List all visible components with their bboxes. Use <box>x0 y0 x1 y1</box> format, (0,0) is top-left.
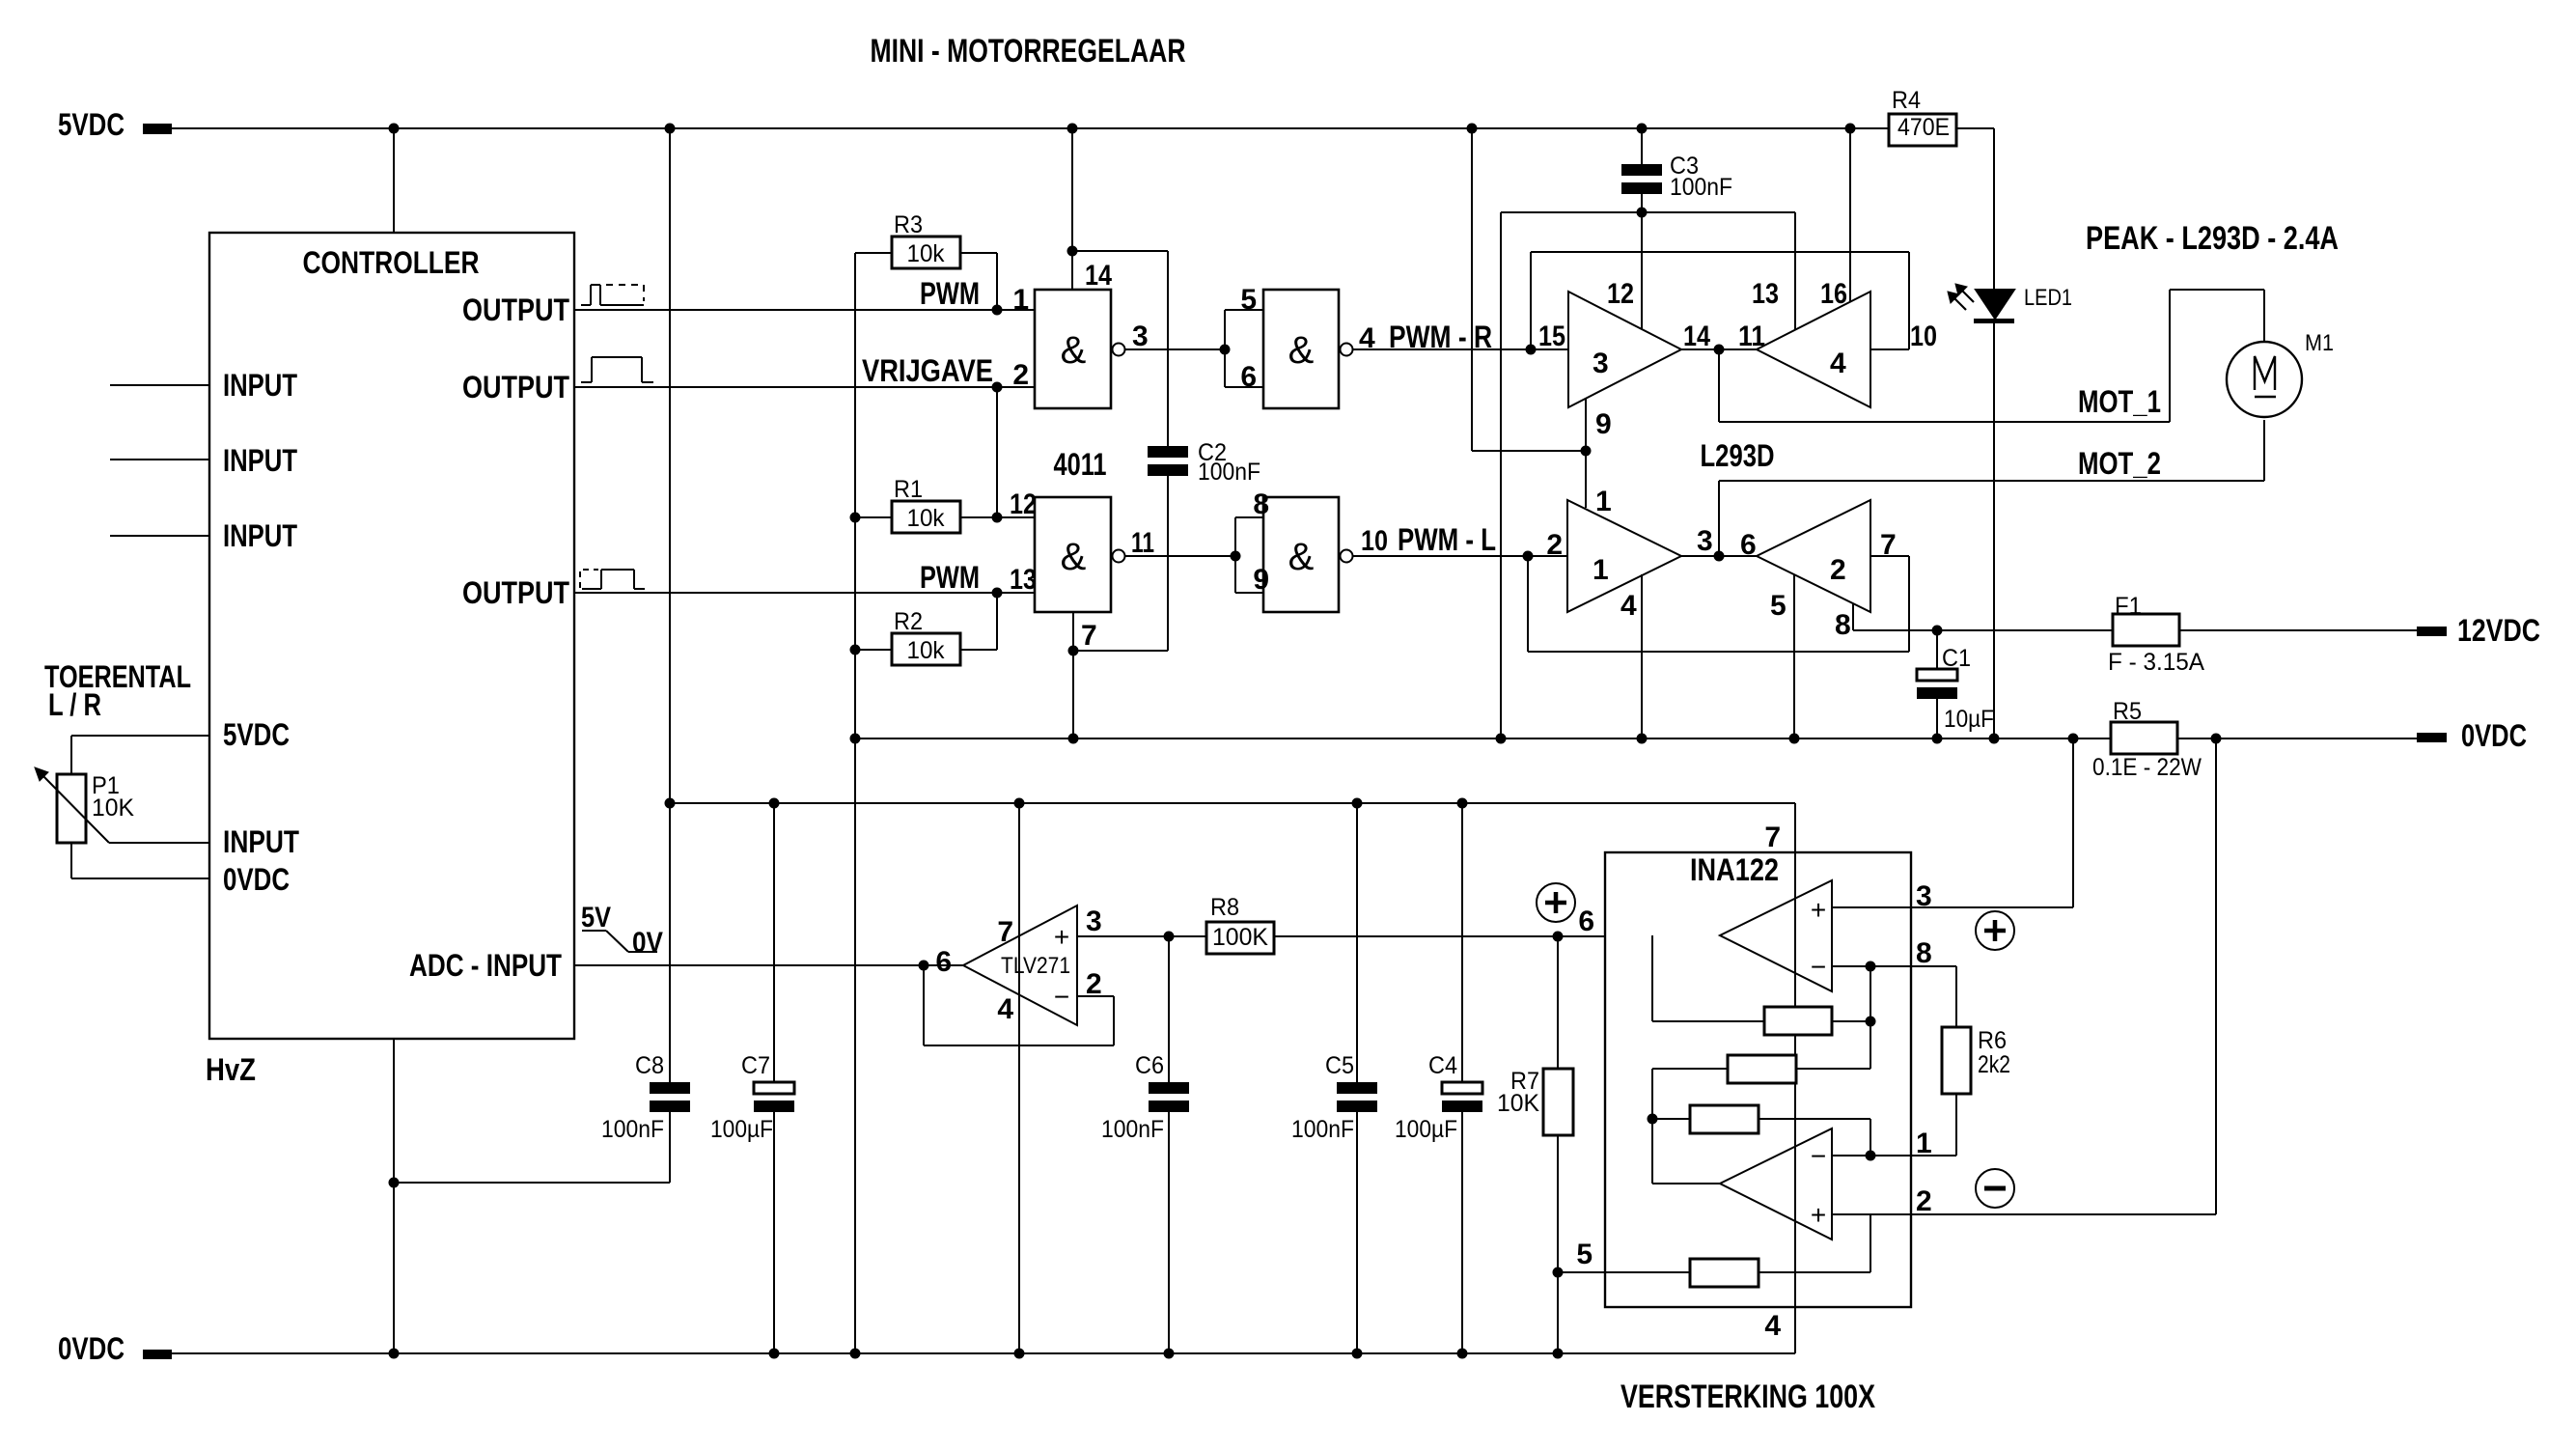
svg-text:5VDC: 5VDC <box>58 107 125 142</box>
svg-text:L / R: L / R <box>48 687 101 722</box>
junction enable pins <box>1581 446 1592 457</box>
pin label 15 <box>1538 320 1565 352</box>
junction rail832 C7 <box>769 798 780 809</box>
wire MOT1 column <box>1718 349 1720 422</box>
svg-text:ADC - INPUT: ADC - INPUT <box>409 948 562 983</box>
wire 5V analog rail <box>670 802 1795 804</box>
wire 4011 pin7 down <box>1072 612 1074 738</box>
junction 4011 pin7 <box>1068 646 1079 656</box>
svg-text:F1: F1 <box>2115 593 2142 620</box>
junction 5VDC enable column <box>1467 124 1478 134</box>
svg-text:7: 7 <box>1081 620 1097 652</box>
svg-text:R5: R5 <box>2113 698 2142 725</box>
svg-text:MOT_1: MOT_1 <box>2078 384 2161 419</box>
wire 0VDC upper rail <box>855 738 2417 739</box>
pin label 2 TLV <box>1086 968 1102 1000</box>
junction 5VDC pin14 column <box>1067 124 1078 134</box>
svg-text:M1: M1 <box>2305 330 2334 356</box>
svg-text:0VDC: 0VDC <box>58 1331 125 1366</box>
controller box <box>209 233 574 1039</box>
wire controller top supply <box>393 128 395 233</box>
controller pin OUTPUT 3 <box>462 575 1035 610</box>
waveform icon output 1 <box>581 285 644 305</box>
svg-text:R8: R8 <box>1210 894 1239 921</box>
svg-text:MINI - MOTORREGELAAR: MINI - MOTORREGELAAR <box>871 33 1186 70</box>
wire gate2 stub <box>1225 310 1263 387</box>
motor M1 <box>2227 330 2334 417</box>
ina internal resistor D <box>1558 1214 1870 1287</box>
junction rail x886 <box>850 734 861 744</box>
wire MOT2 column <box>1718 481 1720 556</box>
pin label 1 L293D <box>1595 486 1612 517</box>
junction 5VDC controller column <box>389 124 400 134</box>
capacitor C6 <box>1101 936 1189 1353</box>
svg-text:100µF: 100µF <box>710 1116 773 1143</box>
svg-text:100K: 100K <box>1212 924 1268 951</box>
pin label 11 L293D <box>1738 320 1765 352</box>
label L293D <box>1701 438 1775 473</box>
junction rail832 TLV7 <box>1014 798 1025 809</box>
wire enable feed pin1 pin9 <box>1472 399 1586 508</box>
svg-text:8: 8 <box>1916 937 1932 969</box>
wire gate1 out to gate2 <box>1125 348 1225 350</box>
svg-text:12: 12 <box>1010 488 1037 520</box>
junction bottom R7 <box>1553 1349 1564 1359</box>
wire INA pin3 <box>1832 738 2073 907</box>
junction gate4 stub <box>1231 551 1241 562</box>
controller pin INPUT 1 <box>110 368 297 403</box>
svg-text:−: − <box>1811 952 1826 982</box>
svg-text:100nF: 100nF <box>1101 1116 1164 1143</box>
svg-text:16: 16 <box>1820 278 1847 310</box>
junction bottom C5 <box>1352 1349 1363 1359</box>
wire INA pin1 <box>1832 1155 1956 1156</box>
junction bottom TLV <box>1014 1349 1025 1359</box>
svg-text:0VDC: 0VDC <box>2461 718 2527 753</box>
svg-text:470E: 470E <box>1897 114 1950 141</box>
pin label 3 L293D <box>1697 525 1713 557</box>
svg-text:INPUT: INPUT <box>223 824 299 859</box>
svg-text:R1: R1 <box>894 476 923 503</box>
junction R1 pin12 <box>992 513 1003 523</box>
pin label 4 INA <box>1764 1310 1781 1342</box>
wire R1 left <box>855 516 892 518</box>
controller pin INPUT wiper <box>109 824 299 859</box>
svg-text:&: & <box>1061 536 1087 578</box>
capacitor C3 <box>1621 128 1732 212</box>
wire R1 right <box>960 516 1035 518</box>
svg-text:100nF: 100nF <box>601 1116 664 1143</box>
pin label 4 L293D <box>1620 590 1637 622</box>
wire R2 left <box>855 649 892 651</box>
svg-text:6: 6 <box>1740 529 1757 561</box>
svg-text:5: 5 <box>1576 1239 1593 1270</box>
junction rail832 x694 <box>665 798 676 809</box>
power terminal 0VDC bottom <box>58 1331 172 1366</box>
svg-text:INPUT: INPUT <box>223 518 297 553</box>
label PEAK - L293D - 2.4A <box>2086 220 2339 257</box>
controller pin 5VDC <box>71 717 290 752</box>
junction rail x1555 <box>1496 734 1507 744</box>
svg-text:3: 3 <box>1593 348 1609 379</box>
controller pin OUTPUT 2 <box>462 370 1035 404</box>
svg-text:2: 2 <box>1546 529 1563 561</box>
junction bottom controller <box>389 1349 400 1359</box>
junction C8 bottom wire <box>389 1178 400 1188</box>
power terminal 12VDC <box>2417 613 2540 648</box>
fuse F1 <box>2108 593 2204 676</box>
junction TLV pin6 <box>919 961 929 971</box>
junction x886 R2 <box>850 645 861 655</box>
junction bottom C4 <box>1457 1349 1468 1359</box>
wire gate4 stub <box>1235 517 1263 593</box>
svg-text:6: 6 <box>935 946 952 978</box>
wire x1525 enable column <box>1471 128 1473 451</box>
ina amp A <box>1720 880 1832 991</box>
svg-text:10: 10 <box>1910 320 1937 352</box>
wire R4 to LED column <box>1957 127 1994 129</box>
op-amp TLV271 <box>963 906 1077 1025</box>
svg-text:10k: 10k <box>907 637 945 664</box>
pin label 3 INA <box>1916 880 1932 912</box>
pin label 8 <box>1253 488 1269 520</box>
wire pin15 column <box>1530 252 1532 349</box>
svg-text:INPUT: INPUT <box>223 443 297 478</box>
wire L293 feedback loop <box>1528 556 1909 652</box>
junction pin8 node <box>1866 961 1876 972</box>
wire gate3 out to gate4 <box>1125 555 1235 557</box>
junction resA right <box>1866 1017 1876 1027</box>
svg-text:4011: 4011 <box>1054 447 1107 482</box>
svg-text:100nF: 100nF <box>1291 1116 1354 1143</box>
svg-text:+: + <box>1811 895 1826 925</box>
capacitor C7 <box>710 803 794 1353</box>
svg-text:14: 14 <box>1683 320 1710 352</box>
pin label 5 <box>1240 284 1257 316</box>
wire apex to apex upper <box>1681 348 1757 350</box>
junction x886 R1 <box>850 513 861 523</box>
wire R3 right <box>960 253 997 310</box>
minus circle pin2 <box>1976 1169 2014 1208</box>
svg-text:+: + <box>1054 922 1069 952</box>
wire R6 bottom <box>1955 1094 1957 1156</box>
wire pin14 column <box>1071 128 1073 290</box>
ina amp B <box>1720 1129 1832 1240</box>
pin label 5 L293D <box>1770 590 1787 622</box>
pin label 1 <box>1012 284 1029 316</box>
wire 0VDC bottom rail <box>172 1352 1795 1354</box>
pin label 3 TLV <box>1086 906 1102 937</box>
svg-text:PWM - R: PWM - R <box>1389 320 1492 354</box>
svg-text:HvZ: HvZ <box>206 1052 256 1087</box>
junction bottom x886 <box>850 1349 861 1359</box>
pin label 12 <box>1010 488 1037 520</box>
pin label 1 INA <box>1916 1128 1932 1159</box>
resistor R3 <box>892 211 960 268</box>
junction rail pin4 <box>1637 734 1648 744</box>
pin label 7 TLV <box>997 916 1013 948</box>
svg-text:11: 11 <box>1738 320 1765 352</box>
wire TLV V column <box>1018 803 1020 1353</box>
svg-text:3: 3 <box>1697 525 1713 557</box>
driver triangle 4 L293D <box>1757 292 1870 407</box>
svg-text:10K: 10K <box>1497 1090 1539 1117</box>
pin label 7 L293D <box>1880 529 1897 561</box>
svg-text:&: & <box>1288 536 1315 578</box>
ina internal resistor C <box>1652 1105 1870 1156</box>
svg-text:5VDC: 5VDC <box>223 717 290 752</box>
junction MOT2 node <box>1714 551 1725 562</box>
svg-text:10: 10 <box>1361 525 1388 557</box>
junction pin1 node <box>1866 1151 1876 1161</box>
junction R7 pin5 <box>1553 1268 1564 1278</box>
svg-text:CONTROLLER: CONTROLLER <box>303 245 480 280</box>
pin label 13 <box>1010 564 1037 596</box>
svg-text:2: 2 <box>1830 554 1846 586</box>
svg-text:OUTPUT: OUTPUT <box>462 575 569 610</box>
wire INA pin2 <box>1832 738 2216 1214</box>
svg-text:+: + <box>1811 1200 1826 1230</box>
wire pin14 to C2 <box>1072 250 1168 252</box>
wire 4011 pin7 to C2 <box>1073 650 1168 652</box>
capacitor C1 <box>1917 630 1994 738</box>
wire R8 to INA <box>1274 935 1720 937</box>
wire gnd rail A <box>1501 211 1795 213</box>
pin label 7 INA <box>1764 822 1781 853</box>
nand gate U1A 4011 <box>1035 290 1125 408</box>
junction PWM-L pin2 <box>1523 551 1534 562</box>
pin label 14 L293D <box>1683 320 1710 352</box>
junction rail LED <box>1989 734 2000 744</box>
wire TLV out <box>1077 935 1206 937</box>
controller pin ADC - INPUT <box>409 948 963 983</box>
svg-text:3: 3 <box>1916 880 1932 912</box>
pin label 11 <box>1131 527 1154 559</box>
junction rail 4011 pin7 <box>1068 734 1079 744</box>
pin label 7 gate <box>1081 620 1097 652</box>
wire controller bottom to 0VDC <box>393 1039 395 1353</box>
svg-text:C7: C7 <box>741 1052 770 1079</box>
controller pin INPUT 3 <box>110 518 297 553</box>
controller pin INPUT 2 <box>110 443 297 478</box>
junction 5VDC C8 column <box>665 124 676 134</box>
svg-text:OUTPUT: OUTPUT <box>462 370 569 404</box>
svg-text:4: 4 <box>1620 590 1637 622</box>
label MINI - MOTORREGELAAR <box>871 33 1186 70</box>
svg-text:5: 5 <box>1240 284 1257 316</box>
label HvZ <box>206 1052 256 1087</box>
wire pin1 column lower <box>1585 399 1587 508</box>
nand gate U1B 4011 <box>1263 290 1353 408</box>
junction rail INA3 column <box>2068 734 2079 744</box>
junction bottom C7 <box>769 1349 780 1359</box>
junction rail pin5 <box>1789 734 1800 744</box>
plus circle pin3 <box>1976 911 2014 950</box>
junction VRIJGAVE pin2 <box>992 382 1003 393</box>
svg-text:C5: C5 <box>1325 1052 1354 1079</box>
driver triangle 2 L293D <box>1757 500 1870 612</box>
driver triangle 3 L293D <box>1568 292 1681 407</box>
svg-text:10µF: 10µF <box>1944 706 1994 733</box>
svg-text:R2: R2 <box>894 608 923 635</box>
svg-text:1: 1 <box>1593 554 1609 586</box>
label INA122 <box>1690 852 1779 887</box>
svg-text:100nF: 100nF <box>1670 174 1732 201</box>
svg-text:2: 2 <box>1916 1185 1932 1217</box>
junction C1 top <box>1932 626 1943 636</box>
junction rail832 C5 <box>1352 798 1363 809</box>
wire pin12 column <box>1641 212 1643 329</box>
controller pin OUTPUT 1 <box>462 293 1035 327</box>
label MOT_2 <box>2078 446 2161 481</box>
wire INA pin8 <box>1832 966 1956 1027</box>
junction 5VDC C3 column <box>1637 124 1648 134</box>
svg-text:PWM - L: PWM - L <box>1398 522 1496 557</box>
plus circle pin6 <box>1537 883 1575 922</box>
svg-text:12: 12 <box>1607 278 1634 310</box>
svg-text:10K: 10K <box>92 794 134 822</box>
svg-text:OUTPUT: OUTPUT <box>462 293 569 327</box>
pin label 6 INA <box>1578 906 1594 937</box>
resistor R4 <box>1889 87 1956 146</box>
svg-text:13: 13 <box>1752 278 1779 310</box>
wire INA pin7 pin4 column <box>1794 803 1796 1353</box>
svg-text:F - 3.15A: F - 3.15A <box>2108 649 2204 676</box>
wire 12VDC <box>1853 629 2417 631</box>
wire MOT_1 <box>1719 290 2264 422</box>
svg-text:4: 4 <box>1764 1310 1781 1342</box>
pin label 5 INA <box>1576 1239 1593 1270</box>
wire pin5 column <box>1793 574 1795 738</box>
svg-text:R6: R6 <box>1978 1027 2007 1054</box>
svg-text:9: 9 <box>1253 564 1269 596</box>
svg-text:LED1: LED1 <box>2024 285 2072 311</box>
resistor R7 <box>1497 936 1573 1353</box>
svg-text:MOT_2: MOT_2 <box>2078 446 2161 481</box>
junction resC left <box>1648 1114 1658 1125</box>
capacitor C2 <box>1148 251 1260 651</box>
pin label 9 L293D <box>1595 408 1612 440</box>
pin label 2 <box>1012 359 1029 391</box>
pin label 13 L293D <box>1752 278 1779 310</box>
svg-text:PEAK - L293D - 2.4A: PEAK - L293D - 2.4A <box>2086 220 2339 257</box>
pin label 4 TLV <box>997 993 1013 1025</box>
svg-text:9: 9 <box>1595 408 1612 440</box>
junction pin15 <box>1526 345 1537 355</box>
junction bottom C6 <box>1164 1349 1175 1359</box>
svg-text:4: 4 <box>997 993 1013 1025</box>
pin label 14 <box>1085 260 1112 292</box>
svg-text:PWM: PWM <box>920 560 980 595</box>
svg-text:R3: R3 <box>894 211 923 238</box>
capacitor C4 <box>1395 803 1482 1353</box>
junction resA column top <box>1648 932 1658 942</box>
svg-text:0V: 0V <box>632 927 663 959</box>
wire ampB apex <box>1652 1183 1720 1184</box>
label 4 PWM - R <box>1389 320 1492 354</box>
wire pin16 column <box>1849 128 1851 302</box>
svg-text:5V: 5V <box>581 902 611 933</box>
svg-text:5: 5 <box>1770 590 1787 622</box>
power terminal 0VDC right <box>2417 718 2527 753</box>
wire input rail B <box>1531 251 1909 253</box>
wire pin4 column <box>1641 574 1643 738</box>
pin label 2 INA <box>1916 1185 1932 1217</box>
svg-text:C4: C4 <box>1428 1052 1457 1079</box>
wire C8 bottom to controller column <box>394 1182 670 1184</box>
svg-text:1: 1 <box>1595 486 1612 517</box>
svg-text:2k2: 2k2 <box>1978 1051 2010 1078</box>
waveform icon output 3 <box>580 570 645 589</box>
svg-text:8: 8 <box>1835 609 1851 641</box>
svg-text:VRIJGAVE: VRIJGAVE <box>862 353 993 388</box>
label VRIJGAVE <box>862 353 993 388</box>
nand gate U1C 4011 <box>1035 497 1125 612</box>
wire R3 left <box>855 252 892 254</box>
LED arrows <box>1948 284 1974 310</box>
junction R2 pin13 <box>992 588 1003 599</box>
controller title <box>303 245 480 280</box>
svg-text:1: 1 <box>1916 1128 1932 1159</box>
svg-text:3: 3 <box>1086 906 1102 937</box>
label MOT_1 <box>2078 384 2161 419</box>
svg-text:0.1E - 22W: 0.1E - 22W <box>2092 754 2202 781</box>
svg-text:L293D: L293D <box>1701 438 1775 473</box>
svg-text:100µF: 100µF <box>1395 1116 1457 1143</box>
junction wireA pin12 <box>1637 208 1648 218</box>
wire pin10 <box>1870 252 1909 349</box>
wire C8 column upper <box>669 128 671 1082</box>
wire x1555 column <box>1500 212 1502 738</box>
svg-text:VERSTERKING 100X: VERSTERKING 100X <box>1620 1379 1875 1415</box>
svg-text:11: 11 <box>1131 527 1154 559</box>
junction R3 pin1 <box>992 305 1003 316</box>
wire C8 column lower <box>669 1112 671 1183</box>
wire left pulldown column x886 <box>854 253 856 1353</box>
label 4011 <box>1054 447 1107 482</box>
svg-text:12VDC: 12VDC <box>2457 613 2540 648</box>
junction pin14 C2 <box>1067 246 1078 257</box>
pin label 6 <box>1240 361 1257 393</box>
svg-text:R4: R4 <box>1892 87 1921 114</box>
capacitor C5 <box>1291 803 1377 1353</box>
wire pot bottom <box>70 843 72 878</box>
wire pin13 column <box>1794 212 1796 330</box>
wire apex to apex lower <box>1681 555 1757 557</box>
pin label 8 L293D <box>1835 609 1851 641</box>
resistor R6 <box>1942 1027 2010 1094</box>
svg-text:−: − <box>1811 1141 1826 1171</box>
pin label 4 <box>1359 322 1375 354</box>
wire pin2 to pin12 column <box>996 387 998 517</box>
svg-text:14: 14 <box>1085 260 1112 292</box>
junction gate2 stub <box>1220 345 1231 355</box>
svg-text:3: 3 <box>1132 320 1149 352</box>
pin label 2 L293D <box>1546 529 1563 561</box>
pin label 3 <box>1132 320 1149 352</box>
label VERSTERKING 100X <box>1620 1379 1875 1415</box>
waveform icon output 2 <box>581 357 653 382</box>
svg-text:100nF: 100nF <box>1198 459 1260 486</box>
pin label 12 L293D <box>1607 278 1634 310</box>
wire PWM-R <box>1353 348 1568 350</box>
junction R7 top <box>1553 932 1564 942</box>
resistor R8 <box>1206 894 1274 954</box>
svg-text:&: & <box>1288 329 1315 372</box>
wire pin8 stub <box>1852 604 1854 630</box>
svg-text:C6: C6 <box>1135 1052 1164 1079</box>
pin label 8 INA <box>1916 937 1932 969</box>
